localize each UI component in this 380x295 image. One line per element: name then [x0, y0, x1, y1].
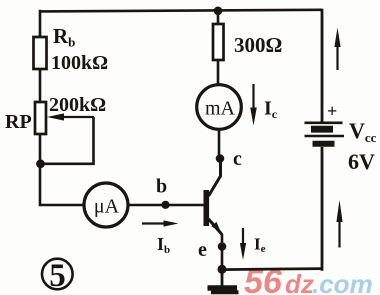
label e [198, 239, 207, 261]
potentiometer RP [35, 102, 94, 134]
node e [218, 242, 227, 251]
svg-text:+: + [327, 101, 337, 121]
label Vcc [349, 118, 377, 145]
wire milliammeter to collector [218, 129, 221, 158]
ammeter M1 (microammeter) [84, 183, 128, 227]
label 100k-ohm [51, 52, 108, 74]
node junction top rail / 300-ohm branch [214, 7, 223, 16]
battery Vcc [305, 123, 345, 144]
node junction emitter / bottom rail / ground [218, 265, 227, 274]
svg-text:dz: dz [285, 269, 314, 295]
label 300-ohm [234, 33, 282, 57]
svg-text:b: b [156, 176, 167, 198]
svg-text:Rb: Rb [53, 24, 75, 50]
svg-text:300Ω: 300Ω [234, 33, 282, 57]
wire top rail to 300-ohm [217, 11, 220, 25]
wire top rail [40, 10, 322, 12]
figure number 5 [42, 258, 73, 294]
ground [208, 269, 239, 292]
current arrow Ic [250, 84, 257, 126]
svg-text:100kΩ: 100kΩ [51, 52, 108, 74]
svg-text:c: c [233, 148, 242, 170]
svg-text:e: e [198, 239, 207, 261]
label Rb [53, 24, 75, 50]
svg-text:Ic: Ic [264, 98, 278, 122]
label Ic [264, 98, 278, 122]
transistor Q1 [204, 160, 223, 247]
label + polarity [327, 101, 337, 121]
node junction wiper / left rail [36, 159, 45, 168]
resistor 300-ohm [213, 24, 224, 60]
svg-text:.com: .com [312, 269, 373, 295]
milliammeter M2 [197, 85, 242, 130]
label 200k-ohm [49, 94, 106, 116]
wire emitter to bottom rail [221, 247, 224, 271]
svg-text:Ib: Ib [157, 234, 170, 256]
current arrow Ie [240, 228, 246, 260]
wire ammeter to base [128, 204, 205, 207]
node b [161, 201, 169, 209]
resistor Rb [34, 37, 47, 69]
current arrow right rail top [334, 28, 340, 71]
svg-text:6V: 6V [348, 149, 375, 174]
svg-text:Ie: Ie [254, 235, 266, 256]
wire left rail [40, 10, 85, 205]
svg-text:200kΩ: 200kΩ [49, 94, 106, 116]
current arrow right rail bottom [336, 200, 342, 248]
label Ie [254, 235, 266, 256]
svg-text:Vcc: Vcc [349, 118, 377, 145]
svg-text:mA: mA [205, 98, 236, 120]
wire 300-ohm to milliammeter [217, 60, 220, 86]
svg-text:RP: RP [5, 111, 32, 133]
label c [233, 148, 242, 170]
wire RP wiper loop [40, 117, 94, 164]
node c [216, 154, 225, 163]
wire bottom rail [222, 269, 322, 270]
svg-text:μA: μA [94, 196, 120, 218]
watermark 56dz.com [244, 263, 373, 295]
wire right rail upper [321, 9, 324, 122]
label 6V [348, 149, 375, 174]
svg-text:5: 5 [49, 258, 66, 294]
wire right rail lower [321, 147, 324, 271]
label RP [5, 111, 32, 133]
label b [156, 176, 167, 198]
label Ib [157, 234, 170, 256]
current arrow Ib [142, 220, 179, 226]
